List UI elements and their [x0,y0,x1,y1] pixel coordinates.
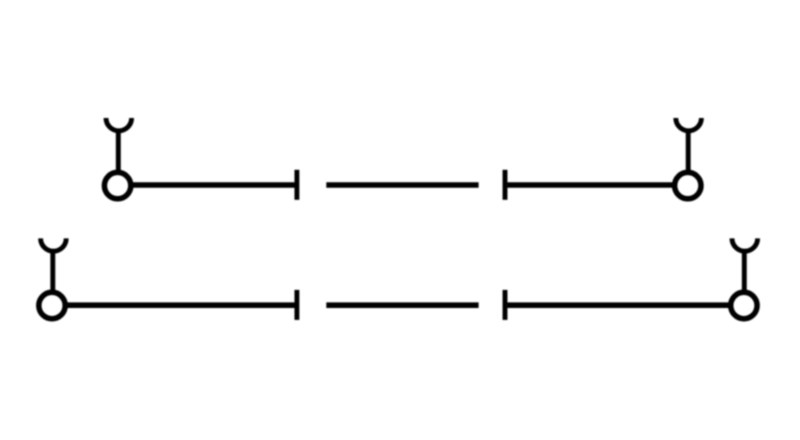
clamp contact fork (lower right) [732,238,758,251]
clamp contact fork (lower left) [41,238,67,251]
rail 2 (lower conductor) [39,238,758,320]
rail 1 (upper conductor) [104,118,701,200]
stem wire (lower left clamp) [50,249,55,292]
terminal circle (upper left) [104,172,130,198]
stem wire (upper right clamp) [686,129,691,173]
wire (lower left segment) [67,302,295,308]
wire (upper right segment) [507,182,673,188]
disconnect bar 1 (lower rail) [294,290,299,320]
terminal circle (lower left) [39,292,65,318]
terminal circle (lower right) [731,292,757,318]
clamp contact fork (upper left) [106,118,132,131]
wire (upper left segment) [132,182,295,188]
wire (upper middle segment) [326,182,478,188]
terminal circle (upper right) [675,172,701,198]
wire (lower middle segment) [326,302,478,308]
disconnect bar 1 (upper rail) [294,170,299,200]
stem wire (lower right clamp) [742,249,747,292]
clamp contact fork (upper right) [676,118,702,131]
wire (lower right segment) [507,302,729,308]
disconnect bar 2 (lower rail) [503,290,508,320]
disconnect bar 2 (upper rail) [503,170,508,200]
stem wire (upper left clamp) [116,129,121,173]
